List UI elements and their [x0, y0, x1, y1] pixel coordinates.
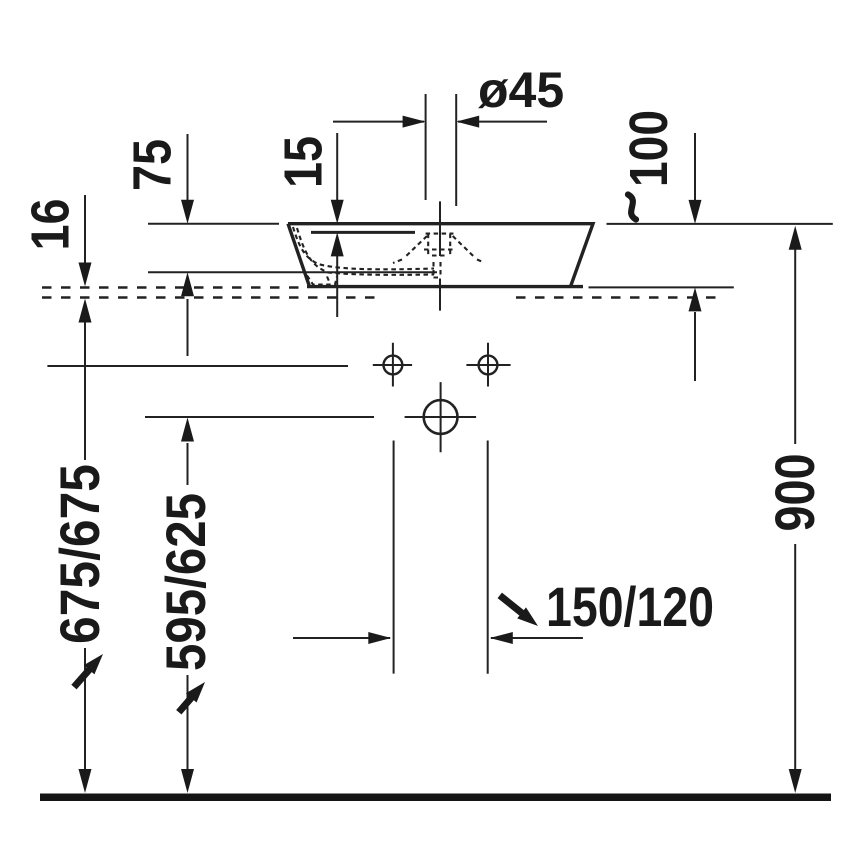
arrowhead dia45 right pointing left: [456, 116, 479, 128]
150/120 extension line right: [487, 441, 489, 674]
left top reference line: [148, 223, 279, 225]
right top reference line: [607, 223, 833, 225]
595 upper arrow shaft: [187, 443, 189, 485]
arrowhead 675 down at floor: [79, 769, 92, 793]
big circle crosshair: [405, 382, 477, 452]
900 dimension line upper: [794, 249, 796, 444]
basin water level line: [148, 271, 437, 273]
svg-text:75: 75: [123, 139, 183, 191]
svg-text:900: 900: [763, 454, 826, 532]
arrowhead 15 lower up: [331, 232, 344, 256]
basin inner rim line: [311, 231, 415, 234]
drain pipe dashes: [434, 262, 442, 278]
svg-text:595/625: 595/625: [154, 493, 217, 671]
675 dimension line lower: [84, 648, 86, 770]
~100 lower arrow shaft: [694, 312, 696, 381]
big circle: [424, 400, 458, 434]
arrowhead 900 up: [789, 226, 802, 250]
faucet flare left: [393, 236, 427, 263]
75 dimension shaft: [187, 134, 189, 201]
svg-text:ø45: ø45: [478, 62, 564, 118]
arrowhead 16 up: [79, 299, 92, 323]
arrowhead 75 down: [181, 200, 194, 224]
dia45 dimension line right: [458, 121, 547, 123]
label ~100 tilde: [628, 195, 636, 220]
right mounting solid line: [589, 286, 734, 288]
centerline of basin: [439, 201, 441, 310]
leader arrow 150/120: [495, 590, 542, 632]
small circle right crosshair: [466, 343, 510, 387]
svg-text:15: 15: [274, 136, 334, 188]
dashed mounting line upper: [42, 286, 303, 288]
basin bottom line: [307, 285, 583, 288]
arrowhead 75 lower up: [181, 272, 194, 296]
leader arrow 595/625: [174, 677, 211, 716]
svg-text:150/120: 150/120: [546, 575, 714, 638]
arrowhead ~100 up: [689, 287, 702, 311]
150/120 dimension line left: [293, 637, 390, 639]
arrowhead 595 up at line: [181, 418, 194, 442]
svg-text:675/675: 675/675: [48, 464, 111, 644]
basin inner bowl dashed curve upper: [293, 227, 434, 269]
arrowhead 150/120 left pointing right: [368, 632, 391, 644]
faucet hole dashed rungs: [424, 234, 456, 256]
basin inner bowl dashed curve lower: [297, 228, 434, 275]
75 lower arrow shaft: [187, 299, 189, 356]
arrowhead ~100 down: [689, 200, 702, 224]
faucet hole dashed verticals: [428, 234, 450, 256]
15 dimension shaft: [336, 133, 338, 201]
16 dimension shaft: [84, 195, 86, 264]
675 dimension line upper: [84, 321, 86, 460]
arrowhead 16 down: [79, 263, 92, 287]
595 dimension line lower: [187, 675, 189, 770]
arrowhead 900 down at floor: [789, 769, 802, 793]
dia45 extension line right: [455, 94, 457, 206]
svg-text:100: 100: [619, 110, 679, 187]
small circles level line: [47, 365, 348, 367]
leader arrow 675/675: [69, 649, 109, 691]
overflow pocket dashes: [307, 276, 337, 285]
floor line: [40, 794, 831, 802]
small circle left: [384, 356, 403, 375]
15 lower arrow shaft: [336, 256, 338, 317]
dia45 extension line left: [425, 94, 427, 200]
arrowhead 15 down: [331, 200, 344, 224]
~100 upper arrow shaft: [694, 133, 696, 201]
big circle level line: [145, 416, 374, 418]
150/120 dimension line right: [491, 637, 583, 639]
svg-text:16: 16: [21, 199, 81, 251]
small circle left crosshair: [373, 343, 412, 387]
dia45 dimension line left: [333, 121, 424, 123]
arrowhead 595 down at floor: [181, 769, 194, 793]
dashed mounting line lower left: [42, 296, 375, 298]
arrowhead 150/120 right pointing left: [490, 632, 513, 644]
faucet flare right: [453, 236, 484, 263]
arrowhead dia45 left pointing right: [403, 116, 426, 128]
dashed mounting line lower right: [516, 296, 724, 298]
small circle right: [479, 356, 498, 375]
900 dimension line lower: [794, 544, 796, 769]
basin outline: [288, 224, 593, 287]
150/120 extension line left: [393, 441, 395, 674]
